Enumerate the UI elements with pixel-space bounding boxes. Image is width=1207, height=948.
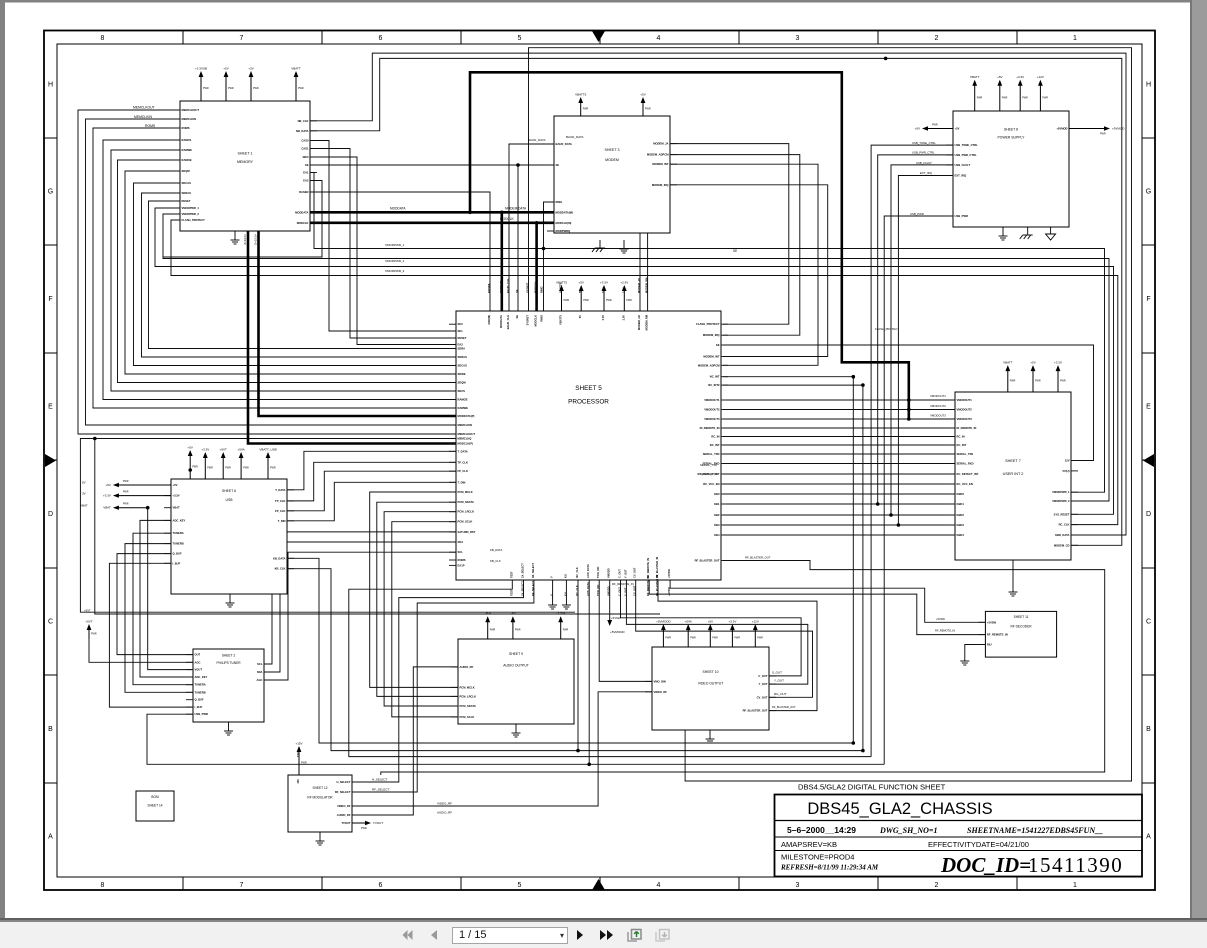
power +12V (752, 620, 763, 647)
svg-text:RF_REMOTE_IN: RF_REMOTE_IN (612, 582, 634, 586)
svg-text:B: B (48, 726, 53, 733)
svg-text:5: 5 (518, 882, 522, 889)
svg-text:TUNERA: TUNERA (173, 531, 184, 535)
pin KBD0 (948, 492, 964, 496)
svg-text:KB_CLK: KB_CLK (275, 567, 286, 571)
svg-text:SCL: SCL (458, 550, 464, 554)
pin PCM_LRCLK (449, 510, 474, 514)
wire I2C_CLK (577, 580, 579, 751)
wire CV_OUT (636, 580, 813, 697)
svg-text:MODCLK: MODCLK (500, 217, 515, 221)
svg-text:SHEET 9: SHEET 9 (509, 652, 523, 656)
prev page button (426, 927, 442, 943)
pin MODCLK(P) (449, 442, 473, 446)
svg-text:VMODPWR_2: VMODPWR_2 (385, 259, 405, 263)
wire USB_PWR (884, 216, 953, 764)
wire FP_CLK (287, 471, 456, 511)
pin VMODOUT2 (948, 408, 972, 412)
svg-text:PCM_SDATA: PCM_SDATA (460, 704, 476, 708)
svg-text:SERIAL_TXD: SERIAL_TXD (700, 463, 717, 467)
power +3.3V (103, 491, 171, 498)
wire KB_CLK (287, 569, 863, 751)
svg-text:2: 2 (935, 882, 939, 889)
svg-text:D: D (1146, 511, 1151, 518)
sheet symbol SHEET 3 MODEM (554, 116, 670, 233)
pin MODEM_IRQ (703, 333, 728, 337)
svg-text:RIU: RIU (987, 643, 992, 647)
node junction (861, 749, 865, 753)
pin EXT_IRQ (946, 174, 966, 178)
svg-text:PWR: PWR (1060, 380, 1066, 383)
pin RC_INT (948, 443, 967, 447)
wire CTRL3 (310, 157, 456, 345)
svg-text:PWR: PWR (123, 503, 129, 506)
pin MODEM_INT (703, 355, 728, 359)
svg-text:VMO_DIN: VMO_DIN (654, 679, 666, 683)
svg-text:MODCLK: MODCLK (534, 315, 538, 327)
pin RC_DETECT_INT (698, 472, 728, 476)
svg-text:VIDEO_RF: VIDEO_RF (337, 804, 351, 808)
svg-text:USB_TONE_CTRL: USB_TONE_CTRL (955, 143, 979, 147)
power +15V (295, 742, 306, 776)
wire UI9 (723, 483, 955, 485)
svg-text:SE: SE (515, 289, 519, 293)
svg-text:PWR: PWR (626, 299, 632, 302)
power +5VA (685, 620, 696, 647)
svg-text:PWR: PWR (1042, 96, 1048, 99)
svg-text:RF_REMOTE_IN: RF_REMOTE_IN (987, 633, 1008, 637)
svg-text:PCM_SCLK: PCM_SCLK (460, 715, 475, 719)
svg-text:MODEM_AD: MODEM_AD (637, 278, 641, 293)
svg-text:PWR: PWR (91, 633, 97, 636)
power VBATT (291, 67, 304, 102)
bus BUS_TOP (470, 72, 909, 420)
pin CV_OUT (757, 695, 776, 699)
svg-text:+5VMODD: +5VMODD (610, 630, 625, 634)
pin RF_BLASTER_OUT (743, 709, 776, 713)
svg-text:+3.3V: +3.3V (1054, 361, 1062, 365)
power VBAT (103, 503, 147, 510)
power +3.3V (728, 620, 740, 647)
svg-text:MODPWRQ: MODPWRQ (556, 229, 571, 233)
svg-text:SDWE: SDWE (458, 372, 466, 376)
ground (224, 722, 233, 735)
svg-text:+5V: +5V (955, 127, 960, 131)
pin V (550, 576, 554, 596)
power VBATT5 (556, 281, 569, 312)
svg-text:SHEETNAME=1541227EDBS45FUN__: SHEETNAME=1541227EDBS45FUN__ (967, 826, 1103, 835)
svg-text:RF_BLASTER_IN: RF_BLASTER_IN (655, 557, 659, 578)
svg-text:ROMS: ROMS (145, 124, 156, 128)
ground (960, 652, 969, 665)
svg-text:USB_PWR: USB_PWR (955, 214, 968, 218)
pin RC_VCC_EN (948, 482, 973, 486)
svg-text:VMODPWR_3: VMODPWR_3 (385, 269, 405, 273)
svg-text:USB_FAULT: USB_FAULT (955, 163, 971, 167)
svg-text:7: 7 (240, 882, 244, 889)
svg-text:VMODOUT1: VMODOUT1 (704, 398, 720, 402)
sheet symbol SHEET 6 USB (171, 479, 287, 594)
svg-text:+3V: +3V (248, 67, 253, 71)
wire I_BUF (109, 563, 193, 707)
pin SDRA (449, 347, 465, 351)
svg-text:RC_DETECT_INT: RC_DETECT_INT (957, 472, 979, 476)
node junction (468, 211, 472, 215)
node junction (576, 749, 580, 753)
wire PCM_MCLK (370, 492, 458, 687)
pin MEMCLKQ (449, 437, 471, 441)
pin RI_REMOTE_IN (700, 426, 728, 430)
svg-text:RAMWE: RAMWE (182, 148, 193, 152)
power +3.3VA (556, 612, 569, 639)
svg-text:USB_FAULT: USB_FAULT (916, 161, 932, 165)
pin VBATT5 (559, 283, 563, 325)
svg-text:SERIAL_TXD: SERIAL_TXD (703, 452, 720, 456)
svg-text:FLASH_PROTECT: FLASH_PROTECT (875, 327, 899, 331)
svg-text:I_BUF: I_BUF (172, 561, 180, 565)
wire UI7 (723, 463, 955, 465)
svg-text:PWR: PWR (228, 87, 234, 90)
svg-text:MODEM_JA: MODEM_JA (653, 142, 668, 146)
wire ACD_DATA (588, 580, 590, 764)
pin +5VSW (978, 620, 996, 624)
svg-text:3: 3 (796, 882, 800, 889)
svg-text:PCM_MCLK: PCM_MCLK (460, 685, 475, 689)
svg-text:RC_CLK: RC_CLK (1059, 523, 1070, 527)
pin VIDEO_RF (337, 804, 359, 808)
wire GP1 (552, 580, 554, 596)
pin AUDIO_RF (451, 665, 474, 669)
svg-text:CAS1: CAS1 (301, 147, 309, 151)
svg-text:+12V: +12V (1037, 75, 1044, 79)
svg-text:MEMCLKQ: MEMCLKQ (458, 437, 472, 441)
pin PCM_SCLK (449, 520, 472, 524)
svg-text:PROCESSOR: PROCESSOR (568, 399, 609, 406)
svg-text:WE0: WE0 (303, 155, 309, 159)
svg-text:SYSRST: SYSRST (526, 315, 530, 326)
centering arrow right (1143, 454, 1154, 467)
svg-text:VMODD: VMODD (607, 568, 611, 578)
svg-text:PWR: PWR (665, 637, 671, 640)
svg-text:H: H (1146, 81, 1151, 88)
svg-text:RC_VCC_EN: RC_VCC_EN (957, 482, 973, 486)
svg-text:8: 8 (101, 882, 105, 889)
svg-text:MODDATA: MODDATA (499, 280, 503, 293)
wire AUDIO_RF (352, 667, 458, 815)
svg-text:CAS0: CAS0 (301, 139, 309, 143)
pin MODEM_IRQ (652, 183, 677, 187)
node junction (535, 221, 539, 225)
svg-text:PCM_SDATA: PCM_SDATA (458, 500, 474, 504)
wire MEM_A8 (142, 193, 457, 357)
svg-text:ACD_DATA: ACD_DATA (586, 582, 590, 596)
svg-text:VMODOUT1: VMODOUT1 (930, 394, 946, 398)
node junction (516, 163, 520, 167)
svg-text:USB_PWR_CTRL: USB_PWR_CTRL (955, 153, 977, 157)
svg-text:A<19:0>: A<19:0> (243, 234, 247, 245)
svg-text:MODDATA: MODDATA (499, 315, 503, 328)
svg-text:4: 4 (657, 35, 661, 42)
svg-text:A: A (1146, 834, 1151, 841)
svg-text:PWR: PWR (1035, 380, 1041, 383)
svg-text:C: C (1146, 619, 1151, 626)
svg-text:USB_TONE_CTRL: USB_TONE_CTRL (912, 141, 936, 145)
svg-text:+12V: +12V (752, 620, 759, 624)
svg-text:RF_REMOTE_IN: RF_REMOTE_IN (646, 558, 650, 578)
wire USB_FAULT (891, 165, 953, 515)
pin SDRAS (449, 355, 467, 359)
svg-text:SHEET 10: SHEET 10 (703, 670, 719, 674)
svg-text:VMODOUT1: VMODOUT1 (957, 398, 973, 402)
wire VMODPWR_1 (155, 208, 1114, 514)
pin 15V (296, 752, 300, 784)
svg-text:RF_BLASTER_IN: RF_BLASTER_IN (655, 575, 659, 596)
svg-text:MODEM_INT: MODEM_INT (652, 162, 668, 166)
svg-text:PWR: PWR (203, 87, 209, 90)
pin SCL (257, 662, 271, 666)
wire MODEM_IRQ (670, 185, 828, 357)
ground (620, 240, 629, 253)
wire MEM_A2 (93, 128, 456, 408)
wire P5VSW (670, 580, 985, 622)
pin KB2 (714, 513, 728, 517)
wire MEM_A7 (134, 183, 457, 366)
node junction (907, 408, 911, 412)
svg-text:2: 2 (935, 35, 939, 42)
svg-text:+15V: +15V (295, 742, 302, 746)
power VBATT (1003, 361, 1016, 392)
svg-text:RF_BLASTER_OUT: RF_BLASTER_OUT (743, 709, 768, 713)
svg-text:AGC: AGC (195, 660, 201, 664)
svg-text:PCM_SCLK: PCM_SCLK (458, 520, 473, 524)
pin OUT (186, 653, 201, 657)
svg-text:KB4: KB4 (714, 533, 720, 537)
svg-text:EA1P: EA1P (458, 563, 465, 567)
svg-text:+3.3V: +3.3V (600, 281, 608, 285)
svg-text:EA2: EA2 (458, 343, 464, 347)
svg-text:3: 3 (796, 35, 800, 42)
pin MEMCLKOUT (173, 108, 199, 112)
wire VMODOUT3 (909, 418, 955, 420)
svg-text:RC_VCC_EN: RC_VCC_EN (703, 482, 719, 486)
pin SE (515, 289, 519, 318)
svg-text:BAUD_DATA: BAUD_DATA (566, 135, 584, 139)
svg-text:G: G (1146, 189, 1151, 196)
svg-text:TVOUT: TVOUT (341, 821, 350, 825)
viewer grey margins (0, 0, 1207, 3)
svg-text:VBATT5: VBATT5 (556, 281, 567, 285)
wire UI11 (723, 503, 955, 505)
svg-text:RING: RING (556, 200, 563, 204)
svg-text:PWR: PWR (1100, 133, 1106, 136)
pin T_DATA (275, 488, 294, 492)
svg-text:VBATT: VBATT (1003, 361, 1013, 365)
wire V854 (852, 377, 854, 743)
pin Y_OUT (623, 569, 627, 596)
wire UI14 (723, 534, 955, 536)
node junction (500, 211, 504, 215)
power +5VMODD (656, 620, 671, 647)
wire VMODD (609, 580, 611, 617)
svg-text:RI_REMOTE_IN: RI_REMOTE_IN (700, 426, 720, 430)
svg-text:AUDIO_RF: AUDIO_RF (337, 813, 351, 817)
pin +3.3V (164, 494, 180, 498)
pin RIU (978, 643, 991, 647)
ground (316, 832, 325, 845)
svg-text:T_DATA: T_DATA (275, 488, 285, 492)
svg-text:E: E (1146, 404, 1151, 411)
svg-text:EA1: EA1 (303, 171, 309, 175)
svg-text:VIDEO OUTPUT: VIDEO OUTPUT (698, 682, 723, 686)
svg-text:VBATT: VBATT (291, 67, 301, 71)
svg-text:TUNERB: TUNERB (173, 542, 184, 546)
svg-text:USB: USB (226, 498, 234, 502)
wire TEST (349, 580, 871, 757)
svg-text:TEST: TEST (509, 571, 513, 578)
signal out TVOUT (352, 821, 383, 830)
svg-text:MODEM_RM: MODEM_RM (645, 278, 649, 293)
svg-text:+3.3V: +3.3V (1016, 75, 1024, 79)
ground (231, 231, 240, 244)
svg-text:USB_PWR: USB_PWR (195, 712, 208, 716)
svg-text:VBATT_USB: VBATT_USB (259, 448, 276, 452)
wire SCL (264, 552, 456, 680)
pin EA1P (449, 563, 465, 567)
svg-text:+5VSW: +5VSW (936, 617, 945, 621)
node junction (907, 398, 911, 402)
pin CAS0 (301, 139, 317, 143)
pin SDCS (449, 389, 465, 393)
pin USB_PWR (946, 214, 968, 218)
wire ADC_KEY (140, 520, 193, 677)
svg-text:NC_INT2: NC_INT2 (708, 383, 720, 387)
pin MODDATA(M) (547, 210, 573, 214)
pin VMODPWR_2 (173, 212, 199, 216)
pin KBD3 (948, 523, 964, 527)
pin RASEN (299, 190, 317, 194)
pin MODEM_ADPCM (647, 153, 677, 157)
svg-text:MODDATA(M): MODDATA(M) (556, 210, 573, 214)
wire T_DIN (287, 482, 456, 521)
pin RAMOE (173, 158, 192, 162)
pin USB_PWR (186, 712, 208, 716)
svg-text:PWR: PWR (734, 637, 740, 640)
svg-text:AUDIO_RF: AUDIO_RF (460, 665, 474, 669)
bus MODDATA (310, 211, 554, 214)
svg-text:MODEM_CD: MODEM_CD (1054, 543, 1070, 547)
wire C_OUT (621, 580, 802, 676)
svg-text:15V: 15V (296, 779, 300, 784)
wire PCM_LRCLK (384, 512, 458, 706)
wire UI10 (723, 493, 955, 495)
svg-text:RXD(M): RXD(M) (487, 315, 491, 325)
svg-text:BAUD_CLK: BAUD_CLK (506, 279, 510, 293)
pin TUNERB (186, 690, 206, 694)
node junction (861, 383, 865, 387)
pin KB4 (714, 533, 728, 537)
svg-text:RF_SELECT: RF_SELECT (531, 580, 535, 596)
svg-text:SDRA: SDRA (458, 347, 466, 351)
svg-text:+5V: +5V (915, 127, 920, 131)
pin USB_PWR_CTRL (946, 153, 977, 157)
pin SERIAL_RXD (948, 462, 974, 466)
power +5V (1030, 361, 1041, 392)
pin RI_REMOTE_IN (948, 426, 976, 430)
svg-text:RING: RING (540, 315, 544, 321)
pin SDQM (449, 381, 466, 385)
pin RF_REMOTE_IN (978, 633, 1007, 637)
svg-text:VMODPWR_1: VMODPWR_1 (182, 206, 200, 210)
svg-text:FLASH_PROTECT: FLASH_PROTECT (696, 322, 720, 326)
pin VIDEO_RF (645, 690, 667, 694)
svg-text:1: 1 (1073, 35, 1077, 42)
svg-text:NB_CLK: NB_CLK (298, 119, 309, 123)
svg-text:PWR: PWR (243, 467, 249, 470)
svg-text:KU: KU (563, 574, 567, 578)
svg-text:MODEM_AD: MODEM_AD (637, 315, 641, 330)
pin KBD2 (948, 513, 964, 517)
pin RING (547, 200, 562, 204)
svg-text:F: F (1146, 296, 1150, 303)
power +5V (915, 124, 953, 131)
node junction (876, 502, 880, 506)
svg-text:KB0: KB0 (714, 492, 720, 496)
wire MEM_A9 (149, 201, 457, 349)
pin MEMCLKOUT (449, 432, 475, 436)
svg-text:EXT_IRQ: EXT_IRQ (920, 171, 933, 175)
svg-text:SHEET 1: SHEET 1 (238, 152, 253, 156)
svg-text:BAUD_DATA: BAUD_DATA (528, 138, 546, 142)
pin RC_IN (948, 435, 965, 439)
pin T_DIN (278, 519, 294, 523)
pin 2.5V (621, 287, 625, 320)
svg-text:MODCLK: MODCLK (297, 221, 309, 225)
svg-text:TUNERB: TUNERB (195, 690, 206, 694)
wire UI1 (723, 409, 955, 411)
svg-text:NC_INT: NC_INT (710, 375, 720, 379)
pin SATURN_RST (449, 530, 476, 534)
svg-text:KB_CLK: KB_CLK (490, 559, 501, 563)
power +2.5V (620, 281, 632, 312)
node junction (542, 247, 546, 251)
wire VBAT_D (148, 508, 193, 670)
svg-text:PWR: PWR (207, 467, 213, 470)
pin KB_DATA (273, 556, 294, 560)
svg-text:KB_DATA: KB_DATA (273, 556, 285, 560)
svg-text:USB_PWR_CTRL: USB_PWR_CTRL (912, 151, 935, 155)
pin RESET (173, 199, 191, 203)
pin +5VSW (667, 569, 671, 596)
svg-text:RF DECODER: RF DECODER (1010, 625, 1032, 629)
svg-text:RAMWE: RAMWE (458, 406, 469, 410)
pin RAMWE (449, 406, 468, 410)
pin KBD_DATA (1055, 533, 1078, 537)
pin SERIAL_TXD (948, 452, 973, 456)
pin RF_REMOTE_IN (646, 558, 650, 596)
pin MODEM_JA (653, 142, 677, 146)
pin Q_BUF (186, 698, 204, 702)
wire GP2 (565, 580, 567, 596)
pin RF_SELECT (531, 562, 535, 596)
svg-text:RF_BLASTER_OUT: RF_BLASTER_OUT (745, 556, 771, 560)
pin FP_CLK (449, 469, 468, 473)
ground (1046, 227, 1056, 240)
svg-text:PWR: PWR (690, 637, 696, 640)
svg-text:SHEET 3: SHEET 3 (605, 148, 620, 152)
pin BAUD_DATA (547, 142, 572, 146)
pin C_OUT (758, 674, 776, 678)
svg-text:PWR: PWR (192, 466, 198, 469)
